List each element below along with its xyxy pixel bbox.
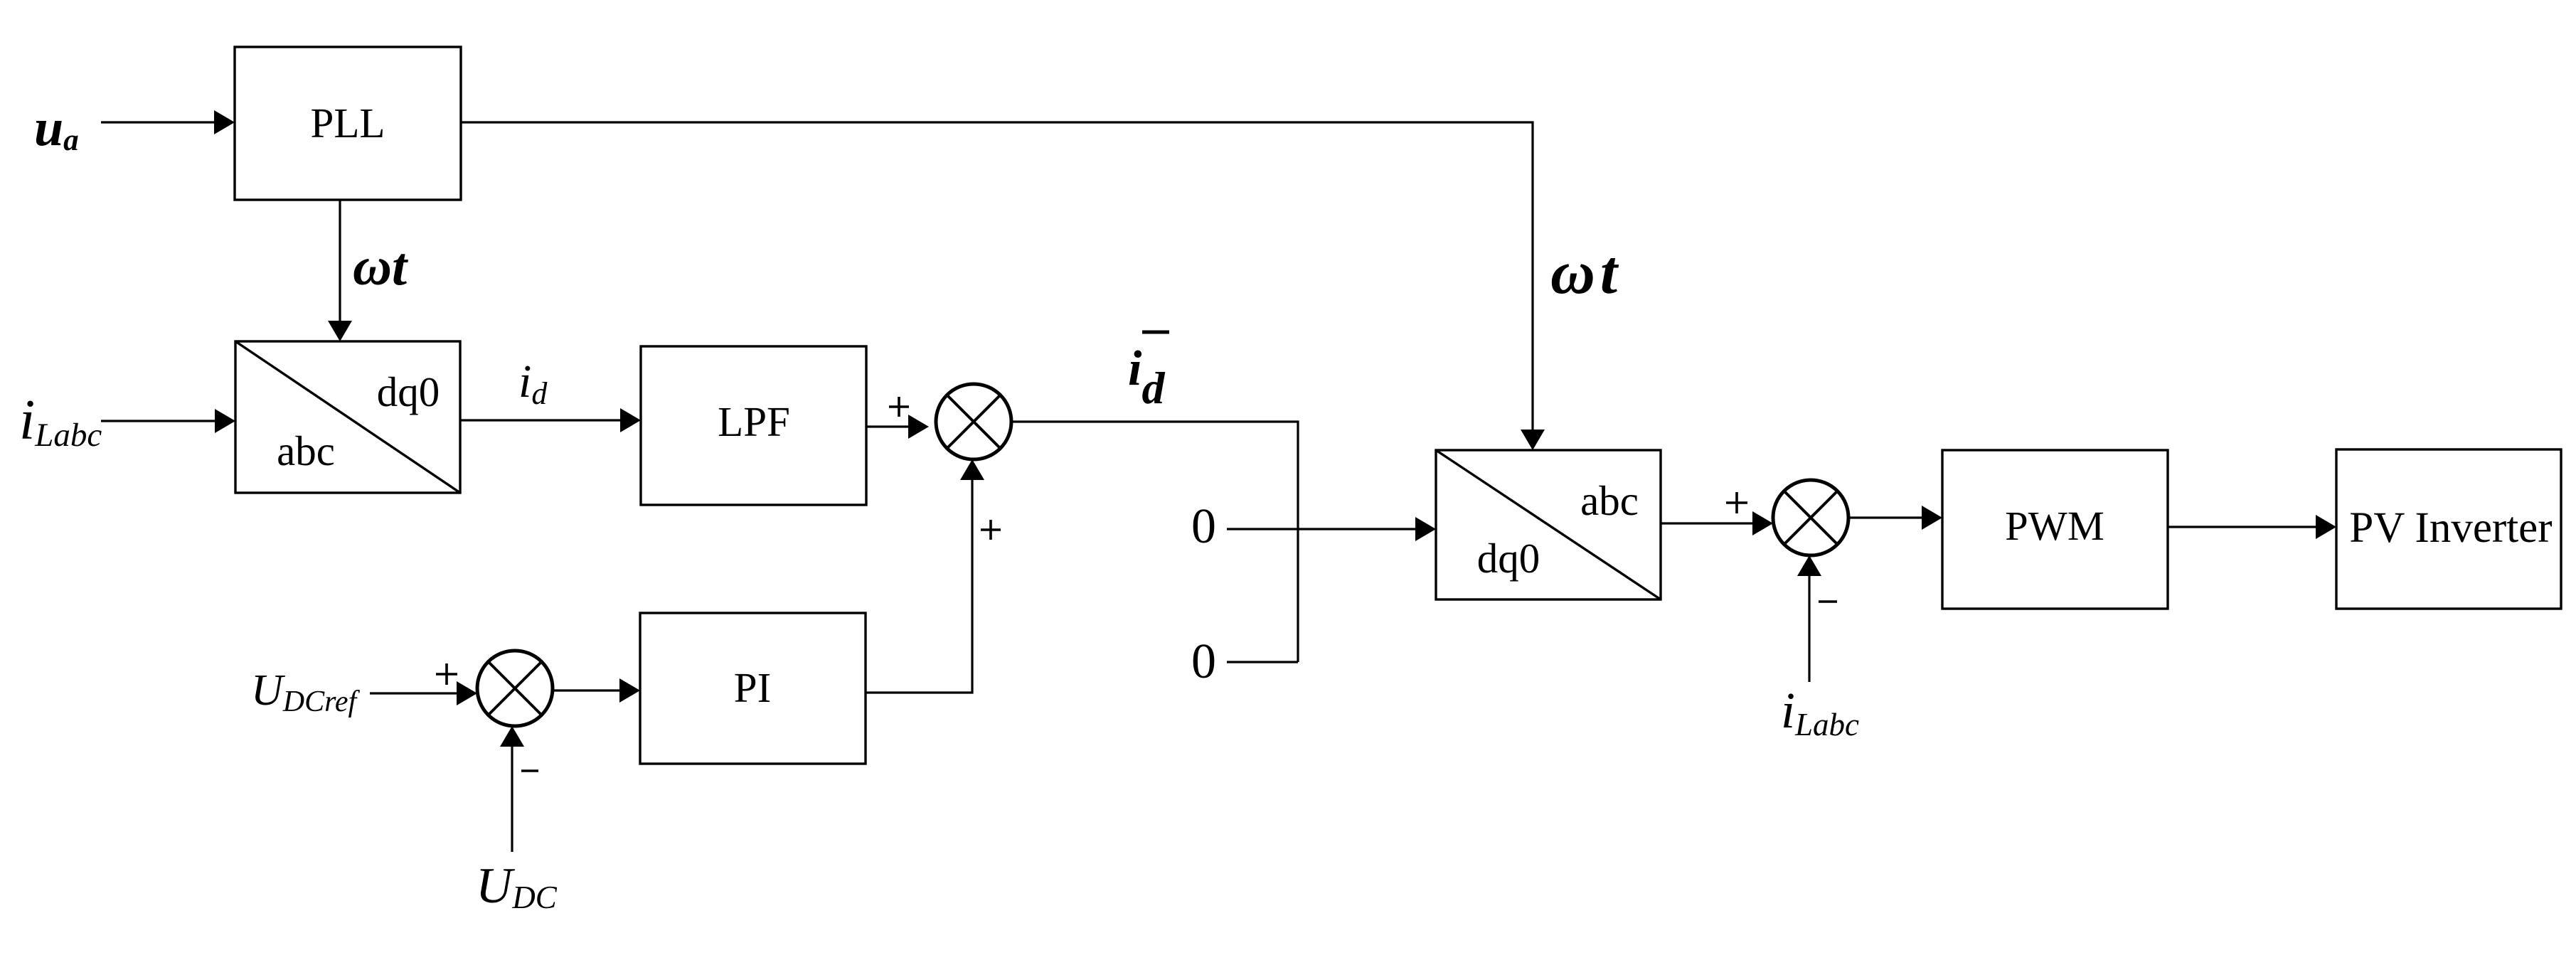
svg-text:PV Inverter: PV Inverter: [2349, 504, 2552, 552]
svg-text:PLL: PLL: [311, 100, 385, 146]
label 0 (bottom input): [1191, 634, 1216, 689]
block abc to dq0 transform U2: [235, 341, 460, 493]
wire U_DCref input into summing junction S3: [370, 681, 477, 705]
svg-text:0: 0: [1191, 634, 1216, 689]
wire LPF output into summing junction S1: [866, 415, 929, 439]
svg-text:PI: PI: [734, 664, 771, 711]
svg-text:dq0: dq0: [377, 368, 440, 415]
wire S1 output i_d-ref bus: right then down: [1011, 422, 1298, 662]
svg-text:PWM: PWM: [2005, 503, 2104, 549]
plus sign at S2 left input: [1726, 492, 1747, 513]
label i_d: [518, 356, 548, 411]
wire S3 output into PI: [553, 678, 640, 703]
wire PLL output omega-t: right then down into dq0-abc block: [461, 122, 1545, 450]
svg-text:abc: abc: [1580, 477, 1639, 524]
plus sign at S3 left input: [436, 663, 457, 685]
minus sign at S3 bottom input: [521, 769, 538, 772]
svg-text:abc: abc: [277, 427, 335, 474]
wire bottom zero input joining bus: [1227, 661, 1298, 663]
wire i_Labc input with arrowhead into abc-dq0: [101, 409, 235, 433]
svg-text:dq0: dq0: [1477, 535, 1540, 582]
wire PI output right then up into S1 bottom: [866, 459, 984, 693]
wire i_d from abc-dq0 to LPF: [460, 408, 641, 432]
plus sign at S1 left input: [889, 397, 909, 417]
label U_DCref: [251, 666, 361, 718]
label U_DC: [476, 858, 558, 915]
svg-text:ωt: ωt: [353, 237, 409, 297]
svg-text:LPF: LPF: [718, 398, 790, 445]
label u_a: [34, 99, 79, 157]
summing junction S3 (circle with X): [477, 651, 553, 726]
label i_Labc (left): [19, 389, 102, 454]
plus sign at S1 bottom input: [981, 520, 1001, 540]
wire middle zero input into dq0-abc block: [1227, 517, 1436, 541]
svg-text:ωt: ωt: [1550, 238, 1622, 306]
svg-text:0: 0: [1191, 499, 1216, 554]
wire PLL bottom output omega-t down into abc-dq0 block: [328, 200, 352, 341]
label omega-t (below PLL): [353, 237, 409, 297]
label i_Labc (feedback): [1781, 682, 1859, 742]
label omega-t (long line): [1550, 238, 1622, 306]
block PLL U1: [235, 47, 461, 200]
wire S2 output into PWM: [1848, 506, 1942, 530]
block PV Inverter U6: [2336, 449, 2561, 609]
minus sign at S2 bottom input: [1819, 600, 1837, 603]
block dq0 to abc transform U4: [1436, 450, 1661, 599]
block PWM U5: [1942, 450, 2168, 609]
summing junction S1 (circle with X): [936, 384, 1011, 459]
summing junction S2 (circle with X): [1773, 480, 1848, 555]
block PI U7: [640, 613, 866, 764]
wire PWM output into PV Inverter: [2168, 515, 2336, 539]
label i_d reference with overbar: [1128, 332, 1169, 413]
wire U_DC feedback up into S3 bottom: [500, 726, 524, 852]
label 0 (middle input): [1191, 499, 1216, 554]
wire i_Labc feedback up into S2 bottom: [1797, 555, 1821, 682]
wire u_a input with arrowhead into PLL: [101, 110, 235, 134]
block LPF U3: [641, 346, 866, 505]
wire dq0-abc output into summing junction S2: [1661, 511, 1773, 535]
